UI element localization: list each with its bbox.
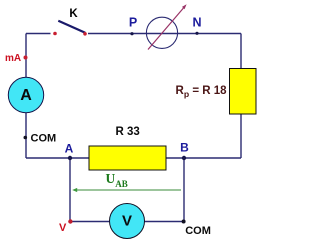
svg-text:mA: mA — [5, 53, 21, 64]
svg-text:K: K — [69, 8, 78, 20]
wire top right segment (switch to node N to top-right corner) — [88, 33, 241, 35]
ammeter COM terminal dot — [24, 136, 28, 140]
wire node B drop to voltmeter branch — [183, 158, 185, 222]
ammeter A — [8, 77, 43, 112]
svg-text:V: V — [59, 222, 67, 234]
svg-text:A: A — [65, 142, 74, 156]
voltmeter COM terminal dot — [182, 220, 186, 224]
switch K left contact dot — [53, 32, 57, 36]
node N junction dot — [195, 32, 198, 35]
svg-text:COM: COM — [31, 133, 57, 145]
resistor R33 — [89, 146, 166, 170]
wire right side (through resistor Rp) — [240, 34, 242, 159]
svg-text:V: V — [122, 212, 132, 229]
node B junction dot — [182, 156, 186, 160]
switch K blade — [58, 21, 85, 33]
voltage arrow UAB (B to A) — [72, 188, 181, 192]
wire bottom of main loop (through resistor R33) — [26, 157, 241, 159]
galvanometer needle arrow — [148, 4, 187, 49]
svg-text:A: A — [20, 87, 32, 104]
svg-text:COM: COM — [185, 225, 211, 237]
wire node A drop to voltmeter branch — [69, 158, 71, 222]
voltmeter V — [110, 204, 145, 239]
svg-text:P: P — [129, 16, 137, 30]
galvanometer G body — [146, 17, 177, 48]
wire left side (through ammeter) — [25, 34, 27, 159]
wire top left segment (corner to switch) — [26, 33, 51, 35]
svg-text:Rp = R 18: Rp = R 18 — [176, 85, 228, 99]
node P junction dot — [130, 32, 133, 35]
svg-text:B: B — [180, 141, 189, 155]
switch K right contact dot — [83, 32, 87, 36]
wire voltmeter branch horizontal — [70, 221, 184, 223]
svg-text:N: N — [192, 16, 201, 30]
node A junction dot — [68, 156, 72, 160]
ammeter mA terminal dot — [24, 56, 28, 60]
resistor Rp — [230, 69, 257, 115]
voltmeter V terminal dot — [68, 219, 72, 223]
svg-text:R 33: R 33 — [115, 126, 139, 138]
